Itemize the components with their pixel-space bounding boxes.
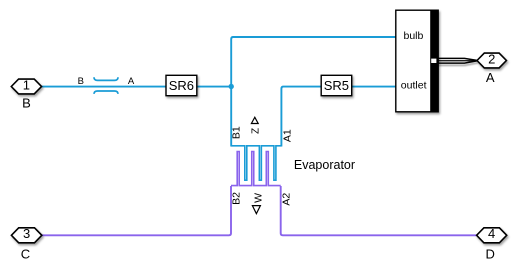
svg-text:SR6: SR6	[169, 78, 194, 93]
svg-text:2: 2	[488, 51, 495, 66]
block SR6	[166, 75, 197, 95]
wire SR6 to junction	[197, 86, 231, 88]
wire SR5 right to outlet port	[352, 86, 396, 88]
block SR5	[321, 75, 352, 95]
svg-text:Evaporator: Evaporator	[294, 158, 355, 172]
wire SR5 left to evaporator A1	[281, 87, 321, 147]
evaporator zone triangle (up)	[251, 117, 258, 123]
TXV port square	[431, 59, 436, 63]
svg-text:SR5: SR5	[324, 78, 349, 93]
svg-text:3: 3	[23, 226, 30, 241]
evaporator W triangle (down)	[252, 206, 260, 214]
evaporator purple comb (bottom half)	[231, 152, 281, 186]
evaporator cyan comb (top half)	[231, 146, 281, 180]
TXV to port2 triple line	[438, 58, 478, 65]
svg-text:B: B	[78, 76, 84, 87]
svg-text:outlet: outlet	[401, 80, 427, 92]
junction dot	[229, 84, 234, 89]
svg-text:A: A	[128, 76, 135, 87]
svg-text:bulb: bulb	[404, 30, 424, 42]
svg-text:A1: A1	[281, 129, 293, 142]
svg-text:A2: A2	[280, 193, 292, 206]
wire junction down to evaporator B1	[230, 87, 232, 147]
svg-text:B: B	[22, 96, 31, 111]
wire junction up to bulb port	[231, 37, 396, 87]
svg-text:A: A	[486, 70, 495, 85]
svg-text:C: C	[21, 246, 30, 261]
port 3 hexagon	[11, 228, 41, 243]
wire port3 to evaporator B2	[42, 186, 231, 235]
wire evaporator A2 to port4	[281, 186, 477, 235]
port 2 hexagon	[477, 53, 506, 68]
orifice symbol top curve	[94, 77, 118, 80]
svg-text:Z: Z	[251, 128, 262, 134]
svg-text:B2: B2	[231, 192, 243, 205]
wire port1 to SR6	[42, 86, 167, 88]
svg-text:B1: B1	[231, 126, 243, 139]
svg-text:4: 4	[488, 226, 495, 241]
port 4 hexagon	[477, 228, 507, 243]
TXV block body	[396, 10, 438, 113]
svg-text:W: W	[253, 193, 265, 203]
orifice symbol bottom curve	[94, 91, 118, 94]
port 1 hexagon	[11, 79, 41, 94]
svg-text:D: D	[486, 247, 495, 262]
svg-text:1: 1	[23, 77, 30, 92]
